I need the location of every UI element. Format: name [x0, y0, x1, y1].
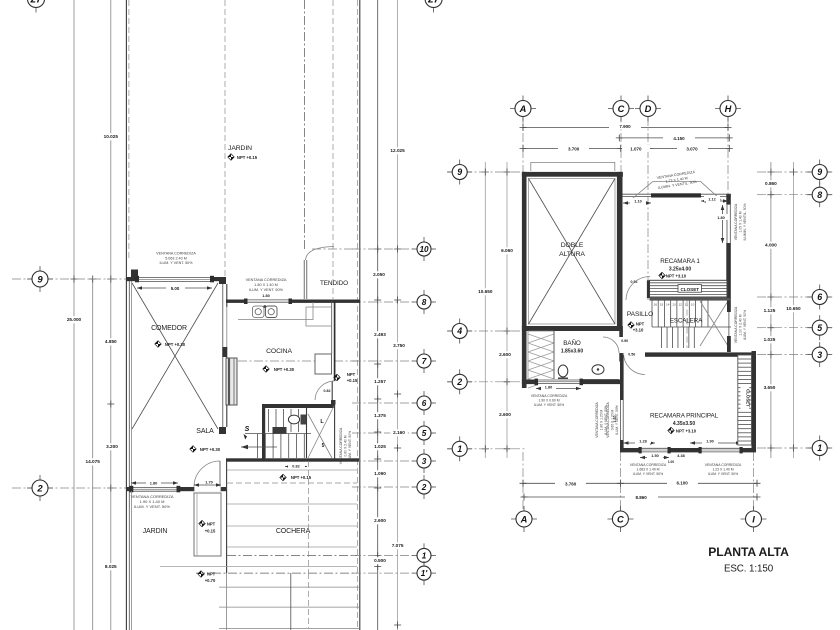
svg-text:NPT +0.30: NPT +0.30: [200, 447, 221, 452]
svg-text:1.025: 1.025: [374, 444, 386, 449]
svg-text:JARDIN: JARDIN: [228, 145, 252, 152]
svg-text:ILUM. Y VENT. 50%: ILUM. Y VENT. 50%: [134, 504, 170, 509]
stair center dashed line: [686, 301, 688, 349]
svg-text:VENTANA CORREDIZA: VENTANA CORREDIZA: [606, 401, 610, 437]
dim line right chain 0.860/4.000/...: [770, 162, 772, 458]
svg-text:4.38: 4.38: [677, 454, 684, 458]
svg-text:4: 4: [456, 326, 462, 336]
stair S leader dot: [244, 434, 248, 440]
svg-text:ESC. 1:150: ESC. 1:150: [724, 564, 774, 575]
window trapezoid top: [653, 180, 701, 182]
NPT diamond ramp: [198, 571, 204, 577]
washer dark box: [273, 427, 287, 434]
svg-text:6: 6: [817, 292, 822, 302]
NPT diamond comedor: [155, 341, 161, 347]
svg-text:COMEDOR: COMEDOR: [151, 325, 187, 332]
rotated window text stairs: [339, 427, 352, 464]
dimension line 14.075 chain: [92, 279, 94, 630]
rotated window text 2: [606, 401, 619, 437]
axis circle 8 mid-column: [412, 290, 436, 314]
dim 1.12: [701, 200, 728, 202]
svg-text:1.90: 1.90: [706, 440, 713, 444]
svg-text:NPT +0.30: NPT +0.30: [274, 367, 295, 372]
doble altura bottom wall: [522, 326, 623, 331]
svg-text:1.12: 1.12: [708, 198, 715, 202]
axis circle 2 left col: [447, 369, 472, 394]
upper flight treads: [268, 409, 270, 432]
axis circle 3 right col: [807, 342, 832, 367]
top letter axis leaders: [522, 117, 524, 173]
cochera left wall extension: [226, 573, 228, 630]
stair right X diagonal 2: [700, 301, 728, 346]
svg-text:CLOSET: CLOSET: [680, 287, 699, 292]
pasillo-recamara ppal door arc: [624, 353, 646, 375]
stairwell top wall: [650, 298, 731, 301]
svg-text:3.200: 3.200: [106, 444, 118, 449]
svg-text:1.23 X 1.40 M: 1.23 X 1.40 M: [712, 468, 733, 472]
svg-text:SALA: SALA: [196, 428, 214, 435]
tick crosses on light chain x=397.6: [394, 246, 401, 253]
recamara 1 top window dark band: [651, 193, 701, 197]
doble altura X diagonal 1: [529, 179, 616, 325]
lot boundary right wall: [359, 0, 361, 630]
recamara ppal left wall upper: [620, 355, 624, 400]
svg-text:1.125: 1.125: [764, 308, 776, 313]
svg-text:1.070: 1.070: [630, 146, 642, 151]
svg-text:10: 10: [691, 303, 695, 307]
svg-text:4.35x3.50: 4.35x3.50: [673, 421, 695, 427]
svg-text:NPT: NPT: [636, 322, 645, 327]
cocina top wall: [226, 300, 360, 303]
doble altura X diagonal 2: [529, 179, 616, 325]
svg-text:9: 9: [457, 167, 462, 177]
window in comedor top wall (ventana corrediza 5.063): [137, 277, 212, 282]
comedor top-left column stub: [131, 270, 138, 278]
dimension line 12.025/3.750/2.160/7.075 chain: [397, 0, 399, 630]
svg-text:3.700: 3.700: [568, 146, 580, 151]
dim 1.90: [690, 442, 741, 444]
svg-text:NPT: NPT: [347, 372, 356, 377]
axis circle 5 mid-column: [412, 421, 436, 445]
svg-text:7.900: 7.900: [619, 124, 631, 129]
svg-text:TENDIDO: TENDIDO: [320, 280, 348, 287]
svg-text:0.60 X 2.40 M: 0.60 X 2.40 M: [344, 435, 348, 456]
comedor double-height X diagonal 1: [132, 283, 218, 429]
recamara 1 right wall lower block: [726, 243, 731, 300]
svg-text:H: H: [725, 104, 732, 114]
stair lower flight treads: [661, 327, 663, 348]
recamara ppal left wall lower: [620, 440, 624, 452]
svg-text:ILUM. Y VENT. 50%: ILUM. Y VENT. 50%: [615, 405, 619, 435]
svg-text:VENTANA CORREDIZA: VENTANA CORREDIZA: [246, 278, 287, 282]
refrigerator: [315, 354, 332, 374]
svg-text:8.025: 8.025: [105, 564, 117, 569]
recamara 1 right wall upper block: [726, 194, 731, 204]
svg-text:NPT +0.15: NPT +0.15: [237, 155, 258, 160]
axis circle H top: [715, 96, 741, 122]
axis circle 9 left: [27, 266, 53, 292]
dim line 6.060/2.600/2.600 chain: [506, 162, 508, 458]
axis circle A bottom: [511, 506, 537, 532]
svg-text:NPT +3.10: NPT +3.10: [676, 429, 697, 434]
doble altura right wall: [617, 172, 623, 331]
NPT diamond planter: [199, 520, 205, 526]
svg-text:8: 8: [422, 298, 427, 307]
svg-text:3.650: 3.650: [764, 385, 776, 390]
bano right wall lower line: [620, 362, 622, 380]
vanity counter line: [583, 379, 619, 381]
svg-text:10.025: 10.025: [104, 134, 119, 139]
svg-text:4.150: 4.150: [673, 136, 685, 141]
svg-text:6.060: 6.060: [501, 248, 513, 253]
dim line 8.860: [524, 496, 757, 498]
svg-text:1': 1': [421, 569, 429, 578]
svg-text:1.10: 1.10: [634, 200, 641, 204]
cochera axis-1prime dash-dot: [196, 572, 357, 574]
svg-text:JARDIN: JARDIN: [143, 528, 168, 535]
svg-text:VENTANA CORREDIZA: VENTANA CORREDIZA: [734, 306, 738, 343]
comedor double-height X diagonal 2: [132, 283, 218, 429]
svg-text:5.063 2.40 M: 5.063 2.40 M: [165, 256, 187, 260]
svg-text:ILUM. Y VENT. 50%: ILUM. Y VENT. 50%: [708, 472, 738, 476]
axis dash-dot line through tendido door: [304, 0, 306, 250]
dim line 3.760 / 6.100: [523, 482, 757, 484]
axis circle 1 right col: [807, 436, 832, 461]
svg-text:VENTANA CORREDIZA: VENTANA CORREDIZA: [705, 463, 742, 467]
axis circle 9 left col: [447, 160, 472, 185]
svg-text:2: 2: [421, 483, 427, 492]
dashed line above comedor right wall: [224, 0, 226, 277]
axis circle 27 top-middle (cut): [420, 0, 447, 13]
sala bottom wall: [126, 487, 226, 491]
svg-text:2.600: 2.600: [499, 412, 511, 417]
stair block right wall: [727, 300, 731, 312]
comedor right wall upper column: [219, 277, 226, 284]
axis circle 6 right col: [807, 285, 832, 310]
dim 5.00 comedor window: [137, 287, 212, 289]
closet left wall stub: [647, 280, 650, 298]
kitchen counter left: [226, 358, 237, 405]
svg-text:0.82: 0.82: [292, 465, 299, 469]
ramp center dashed vertical: [308, 573, 310, 628]
svg-text:1.025: 1.025: [764, 337, 776, 342]
svg-text:6: 6: [422, 399, 427, 408]
svg-text:2.600: 2.600: [374, 518, 386, 523]
tendido door swing arc: [306, 247, 335, 261]
svg-text:1.00 X 2.40 M: 1.00 X 2.40 M: [739, 314, 743, 335]
comedor/sala left wall window lines: [128, 281, 130, 487]
svg-text:5: 5: [322, 443, 325, 449]
dim line 10.650 left chain: [484, 162, 486, 458]
comedor right wall lower dark segment: [222, 347, 227, 357]
svg-text:ILUM. Y VENT. 50%: ILUM. Y VENT. 50%: [348, 431, 352, 461]
NPT diamond cochera entry: [280, 474, 286, 480]
axis circle 6 mid-column: [412, 391, 436, 415]
chain texts x=92.7: [82, 458, 102, 465]
cocina-tendido door arc: [315, 381, 335, 400]
planter box: [194, 493, 221, 556]
bano bottom wall with window: [522, 380, 623, 385]
axis leader lines to right-column axis circles of left plan: [352, 248, 434, 250]
chain texts x=74: [64, 316, 84, 323]
right axis leaders right plan: [757, 171, 830, 173]
recamara ppal right wall: [752, 351, 757, 452]
svg-text:3: 3: [817, 350, 822, 360]
svg-text:14.075: 14.075: [86, 459, 101, 464]
svg-text:3: 3: [422, 457, 427, 466]
axis D dash-dot through recamara 1: [647, 196, 649, 300]
svg-text:+0.70: +0.70: [205, 578, 216, 583]
svg-text:COCHERA: COCHERA: [276, 528, 311, 535]
cochera dashed floor line: [227, 482, 357, 484]
NPT diamond recamara ppal: [668, 427, 674, 433]
svg-text:RECAMARA PRINCIPAL: RECAMARA PRINCIPAL: [650, 413, 719, 420]
svg-text:12.025: 12.025: [390, 148, 405, 153]
NPT diamond sala: [190, 446, 196, 452]
svg-text:5: 5: [422, 429, 427, 438]
svg-text:10.650: 10.650: [786, 306, 801, 311]
svg-text:1.80: 1.80: [545, 385, 552, 389]
svg-text:1.85x3.60: 1.85x3.60: [561, 349, 583, 355]
NPT diamond cocina: [263, 366, 269, 372]
svg-text:CLOSET: CLOSET: [746, 389, 751, 407]
axis 7 dash-dot through cocina interior: [238, 360, 358, 362]
stair block right wall: [334, 404, 336, 461]
svg-text:C: C: [617, 514, 624, 524]
svg-text:RECAMARA 1: RECAMARA 1: [660, 258, 700, 265]
svg-text:15: 15: [660, 303, 664, 307]
svg-text:NPT +3.10: NPT +3.10: [666, 274, 687, 279]
axis circle I bottom: [741, 506, 767, 532]
svg-text:1.683 X 1.40 M: 1.683 X 1.40 M: [637, 468, 660, 472]
svg-text:0.56: 0.56: [628, 353, 635, 357]
svg-text:1.80: 1.80: [262, 294, 269, 298]
stair right X diagonal 1: [700, 301, 728, 346]
bano right wall upper stub: [619, 331, 623, 337]
NPT diamond at tendido door: [334, 374, 340, 380]
comedor right wall (to cocina): [222, 284, 224, 427]
svg-text:11: 11: [685, 303, 688, 307]
svg-text:VENTANA CORREDIZA: VENTANA CORREDIZA: [630, 463, 667, 467]
bano shower hatch: [528, 331, 554, 383]
svg-text:VENTANA CORREDIZA: VENTANA CORREDIZA: [156, 252, 196, 256]
axis circle 4 left col: [447, 319, 472, 344]
svg-text:2.050: 2.050: [373, 272, 385, 277]
dim 1.10: [623, 202, 651, 204]
svg-text:NPT: NPT: [207, 572, 216, 577]
axis circle 8 right col: [807, 182, 832, 207]
svg-text:1.375: 1.375: [374, 413, 386, 418]
svg-text:D: D: [645, 104, 652, 114]
closet band recamara ppal: [738, 355, 752, 445]
axis circle 5 right col: [807, 315, 832, 340]
bano shower divider: [553, 331, 555, 383]
window trapezoid right slope: [701, 181, 722, 200]
svg-text:12: 12: [678, 303, 682, 307]
svg-text:1.05 X 1.40 M: 1.05 X 1.40 M: [739, 211, 743, 232]
dim 1.80 vertical: [722, 205, 724, 243]
svg-text:1.80: 1.80: [150, 481, 158, 486]
cocina right wall upper segment: [331, 301, 333, 354]
svg-text:NPT +0.30: NPT +0.30: [165, 342, 186, 347]
dimension line 25.000 chain: [73, 0, 75, 630]
svg-text:1.50: 1.50: [651, 454, 658, 458]
svg-text:27: 27: [29, 0, 42, 6]
svg-text:2.160: 2.160: [393, 430, 405, 435]
axis 9 dash-dot leader left: [12, 278, 126, 280]
bano toilet: [558, 365, 568, 377]
svg-text:A: A: [519, 104, 527, 114]
svg-text:VENTANA CORREDIZA: VENTANA CORREDIZA: [339, 427, 343, 464]
svg-text:8: 8: [817, 190, 822, 200]
svg-text:VENTANA CORREDIZA: VENTANA CORREDIZA: [734, 203, 738, 240]
NPT diamond recamara 1: [659, 272, 665, 278]
closet band recamara 1: [650, 280, 728, 297]
cochera axis-1 dash-dot: [227, 554, 357, 556]
svg-text:6.100: 6.100: [676, 481, 688, 486]
svg-text:0.90: 0.90: [621, 339, 628, 343]
dim 1.50 / 4.38 row: [640, 457, 669, 459]
dim 1.80 sala window: [131, 482, 178, 484]
svg-text:5: 5: [817, 323, 822, 333]
left wall lines below sala: [128, 491, 130, 630]
svg-text:ILUMIN. Y VENTIL. 50%: ILUMIN. Y VENTIL. 50%: [743, 204, 747, 241]
svg-text:VENTANA CORREDIZA: VENTANA CORREDIZA: [531, 394, 568, 398]
dim line 10.650 right chain: [792, 162, 794, 458]
stair landing line: [245, 433, 311, 435]
recamara ppal bottom wall: [620, 448, 756, 452]
axis circle 7 mid-column: [412, 349, 436, 373]
driveway ramp lines: [219, 586, 359, 588]
bano sink: [592, 365, 604, 375]
window in sala bottom wall: [131, 487, 178, 492]
svg-text:3.760: 3.760: [565, 481, 577, 486]
svg-text:9: 9: [817, 167, 822, 177]
window trapezoid left slope: [631, 181, 653, 200]
tick crosses on left chains: [107, 276, 114, 283]
cocina-tendido door leaf: [331, 381, 333, 400]
chain texts x=377.7: [370, 271, 388, 278]
svg-text:BAÑO: BAÑO: [563, 338, 581, 347]
cooktop (estufa): [253, 306, 265, 318]
cochera floor lines: [227, 469, 357, 471]
svg-text:I: I: [752, 514, 755, 524]
bottom letter axis leaders: [522, 452, 524, 510]
dimension chain line right of left plan: [377, 0, 379, 630]
svg-text:14: 14: [666, 303, 670, 307]
svg-text:+0.15: +0.15: [205, 529, 216, 534]
axis 2 dash-dot leader left: [12, 487, 126, 489]
svg-text:5.00: 5.00: [171, 286, 180, 291]
dim 0.82 below stairs: [285, 466, 307, 468]
svg-text:1.00: 1.00: [668, 460, 674, 464]
svg-text:PLANTA ALTA: PLANTA ALTA: [708, 545, 789, 559]
slanted window text recamara 1: [656, 170, 698, 190]
svg-text:9: 9: [37, 274, 43, 285]
svg-text:1: 1: [457, 444, 462, 454]
bottom window left: [640, 448, 669, 453]
axis circle 9 right col: [807, 160, 832, 185]
sala-jardin door arc: [194, 461, 220, 487]
svg-text:+0.15: +0.15: [347, 378, 358, 383]
svg-text:2: 2: [456, 377, 462, 387]
svg-text:1.80 X 1.20 M: 1.80 X 1.20 M: [599, 409, 603, 430]
ramp edge vertical: [290, 573, 292, 630]
svg-text:2: 2: [36, 483, 43, 494]
tick crosses on right dimension chain x=377.7: [374, 246, 381, 253]
svg-text:10: 10: [419, 245, 429, 254]
tendido door leaf: [303, 260, 305, 299]
axis circle 3 mid-column: [412, 449, 436, 473]
stair direction arrow: [241, 446, 277, 448]
svg-text:1.90 X 0.60 M: 1.90 X 0.60 M: [538, 398, 559, 402]
svg-text:C: C: [618, 104, 625, 114]
pasillo door arc to recamara 1: [626, 277, 650, 301]
svg-text:DOBLE: DOBLE: [561, 242, 584, 249]
svg-text:2.493: 2.493: [374, 332, 386, 337]
recamara ppal top wall: [645, 352, 756, 356]
bano door arc: [603, 337, 619, 353]
axis circle D top: [635, 96, 661, 122]
axis circle 10 mid-column: [412, 237, 436, 261]
svg-text:ESCALERA: ESCALERA: [670, 318, 703, 325]
axis circle A top: [510, 96, 536, 122]
axis circle C bottom: [607, 506, 633, 532]
svg-text:ILUM. Y VENT. 50%: ILUM. Y VENT. 50%: [249, 288, 284, 292]
axis circle 2 mid-column: [412, 475, 436, 499]
cochera line y566: [160, 565, 357, 567]
svg-text:7: 7: [422, 357, 427, 366]
NPT diamond pasillo: [628, 322, 634, 328]
svg-text:COCINA: COCINA: [266, 348, 292, 355]
stair upper flight treads: [651, 301, 653, 328]
svg-text:13: 13: [672, 303, 676, 307]
stair block bottom / cochera top wall: [226, 458, 359, 461]
svg-text:10.650: 10.650: [478, 289, 493, 294]
bano right wall below door: [619, 353, 623, 362]
stair block top wall: [262, 404, 335, 408]
svg-text:NPT: NPT: [207, 522, 216, 527]
window in cocina top wall: [246, 299, 290, 303]
chain texts x=397.6: [387, 147, 407, 154]
svg-text:0.860: 0.860: [765, 181, 777, 186]
kitchen counter edge line: [238, 302, 313, 320]
recamara ppal left wall window: [620, 400, 622, 440]
step notch in cocina NE corner: [306, 307, 331, 326]
stair block left wall: [262, 404, 265, 461]
dim line 3.700/1.070/3.070: [523, 147, 729, 149]
svg-text:1.090: 1.090: [374, 471, 386, 476]
svg-text:27: 27: [427, 0, 440, 6]
svg-text:4.850: 4.850: [105, 339, 117, 344]
lot boundary left wall: [125, 0, 127, 630]
dashed setback line right: [357, 0, 359, 630]
svg-text:3.25x4.00: 3.25x4.00: [669, 267, 691, 273]
svg-text:VENTANA CORREDIZA: VENTANA CORREDIZA: [595, 401, 599, 437]
svg-text:ILUM. Y VENT. 50%: ILUM. Y VENT. 50%: [159, 261, 193, 265]
lower flight treads: [257, 434, 259, 458]
doble altura parapet: [531, 162, 615, 171]
svg-text:0.60 X 1.20 M: 0.60 X 1.20 M: [610, 409, 614, 430]
axis circle 27 top-left (cut): [23, 0, 50, 13]
recamara 1 right window: [726, 205, 728, 243]
understair diagonals: [308, 406, 334, 458]
dim line 7.900: [523, 127, 728, 129]
chain texts x=110.8: [101, 133, 121, 140]
svg-text:1.28: 1.28: [639, 440, 646, 444]
rotated window text 1: [595, 401, 608, 437]
svg-text:0.500: 0.500: [374, 558, 386, 563]
